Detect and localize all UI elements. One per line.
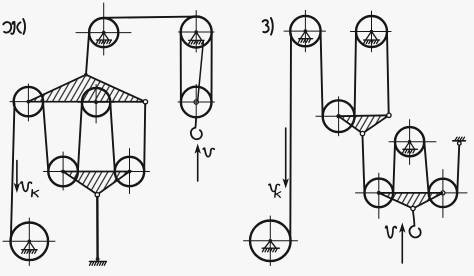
ceiling anchor (right figure) (453, 137, 466, 145)
wire top rope P1-P2 (104, 17, 197, 18)
axle of L2 (441, 191, 445, 195)
axle of P5 (94, 100, 98, 104)
wire rope traverse node to P7 right (144, 104, 145, 171)
node of middle traverse (387, 113, 391, 117)
axle of P3 (194, 100, 198, 104)
wire rope anchor to L2 right (457, 146, 459, 193)
support of Q4 (403, 140, 418, 153)
pulley P7 crosshair (107, 149, 150, 194)
support of P1 (96, 31, 111, 44)
axle of L1 (377, 191, 381, 195)
pulley P1 (89, 18, 118, 47)
pulley P4 crosshair (10, 84, 49, 121)
pulley L1 (365, 179, 394, 208)
lower traverse triangle of з (hatched, inverted) (379, 193, 443, 209)
hook of P3 (191, 117, 202, 139)
pulley Q3 crosshair (316, 97, 357, 136)
arrow v_k (left figure) (14, 161, 20, 194)
label z) (263, 18, 273, 35)
apex node of lower traverse (95, 193, 99, 197)
pulley P1 crosshair (76, 3, 131, 55)
axle of Q3 (336, 114, 340, 118)
pulley P2 crosshair (179, 11, 215, 53)
wire rope P5 right to P7 left (110, 103, 115, 171)
pulley Q5 crosshair (244, 216, 298, 266)
pulley Q3 (323, 100, 355, 132)
arrow v (left figure) (195, 144, 201, 182)
wire rope Q4 left to L1 right (393, 143, 395, 192)
upper traverse triangle (hatched) (28, 75, 145, 102)
wire rope P1 left down to traverse apex (86, 34, 89, 75)
wire rope P4 right to P6 left (43, 103, 48, 171)
pulley L2 (429, 179, 457, 207)
arrow v_k (right figure) (283, 128, 289, 189)
pulley P6 (48, 157, 78, 187)
hook of з (409, 211, 420, 238)
wire rope traverse apex down to L1 left (363, 136, 365, 192)
arrow v (right figure) (399, 223, 405, 264)
label v_k (left figure) (21, 182, 32, 191)
label v (left figure) (203, 148, 214, 157)
label v (right figure) (386, 226, 397, 237)
apex node of middle traverse (360, 131, 364, 135)
pulley P4 (14, 87, 43, 116)
support of Q1 (298, 29, 312, 42)
wire rope P2 left to P3 left (180, 33, 182, 102)
pulley Q4 (395, 127, 424, 156)
pulley P8 crosshair (3, 218, 55, 266)
support of Q2 (364, 30, 380, 44)
lower traverse triangle (hatched, inverted) (63, 172, 129, 195)
support of P2 (189, 30, 204, 44)
wire winch rope P4 left to P8 (11, 104, 15, 242)
label zh) (3, 19, 25, 34)
pulley Q2 (356, 16, 387, 47)
pulley Q5 (250, 221, 291, 262)
wire dead-end rope P2 to P3 axle (198, 42, 204, 101)
middle traverse triangle (hatched) (339, 115, 389, 133)
pulley Q1 crosshair (284, 10, 326, 51)
pulley P5 (82, 88, 110, 116)
rod from lower traverse to ground (96, 197, 99, 258)
pulley Q4 crosshair (389, 120, 436, 165)
label v_k (right figure) (269, 184, 280, 191)
ground anchor of rod (90, 257, 107, 265)
pulley L2 crosshair vertical (442, 170, 444, 218)
right node of upper traverse (143, 100, 147, 104)
wire winch rope Q1 left down to Q5 (289, 34, 292, 241)
support of P8 (22, 240, 37, 254)
axle of P4 (27, 100, 31, 104)
wire rope Q1 right to Q3 left (321, 33, 323, 116)
wire rope P5 left to P6 right (78, 103, 82, 171)
pulley Q1 (290, 16, 320, 46)
wire rope P2 right to P3 right (211, 33, 213, 102)
pulley P5 crosshair (78, 85, 115, 124)
pulley P2 (181, 17, 212, 48)
support of Q5 (262, 239, 279, 252)
wire rope Q2 right to traverse node (387, 33, 389, 114)
apex node of upper traverse (84, 73, 88, 77)
pulley L1 crosshair vertical (378, 173, 380, 218)
wire rope Q3 right to Q2 left (355, 33, 356, 116)
axle of P6 (61, 170, 65, 174)
axle of P7 (128, 170, 132, 174)
pulley P8 (11, 223, 49, 261)
pulley P6 crosshair (44, 152, 87, 190)
wire rope Q4 right to L2 left (424, 143, 428, 192)
pulley Q2 crosshair (350, 11, 391, 52)
pulley P7 (115, 157, 144, 186)
pulley P3 crosshair (178, 85, 215, 122)
crosshair horizontal through L1,L2 (356, 192, 468, 194)
pulley P3 (movable, hook block) (181, 87, 212, 118)
apex node of lower traverse of з (411, 206, 415, 210)
